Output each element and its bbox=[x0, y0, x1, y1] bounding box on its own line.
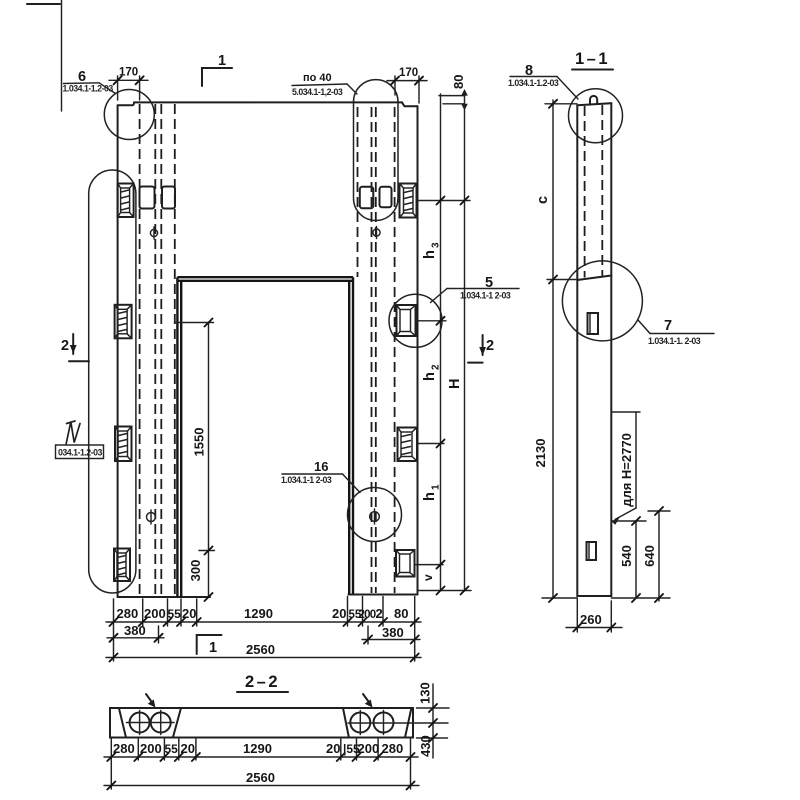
svg-text:200: 200 bbox=[359, 609, 376, 621]
svg-text:2: 2 bbox=[486, 338, 494, 354]
svg-text:2: 2 bbox=[431, 364, 442, 370]
svg-text:для H=2770: для H=2770 bbox=[619, 433, 634, 507]
svg-text:20: 20 bbox=[332, 606, 346, 621]
transition line bbox=[577, 276, 611, 281]
svg-text:80: 80 bbox=[451, 75, 466, 89]
svg-text:h: h bbox=[422, 250, 438, 259]
top-left corner notch bbox=[118, 102, 134, 105]
door opening right edge (double) bbox=[352, 277, 354, 594]
svg-text:2–2: 2–2 bbox=[245, 673, 280, 691]
boxed label left bbox=[66, 422, 80, 445]
svg-text:280: 280 bbox=[117, 606, 139, 621]
door opening top edge (double) bbox=[177, 276, 353, 278]
dim row1 ticks bbox=[110, 618, 419, 626]
dashed axis pair right bbox=[371, 107, 373, 593]
load arrow right bbox=[363, 694, 370, 703]
dashed axis pair left bbox=[154, 104, 156, 596]
slot rect bottom bbox=[587, 542, 597, 560]
svg-text:80: 80 bbox=[394, 606, 408, 621]
svg-text:1: 1 bbox=[209, 640, 217, 656]
right keyway trapezoid bbox=[343, 708, 349, 738]
svg-text:55: 55 bbox=[165, 742, 179, 756]
hole circles right bbox=[350, 713, 370, 733]
stray frame line top-left bbox=[61, 0, 63, 111]
dim 170 left: extension lines bbox=[117, 76, 119, 100]
svg-text:170: 170 bbox=[399, 67, 418, 79]
svg-text:по 40: по 40 bbox=[303, 72, 332, 84]
embedded plate P1L bbox=[118, 184, 134, 218]
dim 170 right: extension lines bbox=[394, 76, 396, 95]
svg-text:1: 1 bbox=[218, 53, 226, 69]
bottom extension line right bbox=[418, 590, 472, 592]
svg-text:280: 280 bbox=[113, 741, 135, 756]
top-right corner notch bbox=[402, 102, 418, 106]
svg-text:2130: 2130 bbox=[533, 439, 548, 468]
svg-text:1.034.1-1 2-03: 1.034.1-1 2-03 bbox=[460, 291, 511, 301]
svg-text:1: 1 bbox=[431, 484, 442, 490]
panel bottom edge right segment bbox=[349, 594, 418, 596]
svg-text:200: 200 bbox=[144, 606, 166, 621]
svg-text:20: 20 bbox=[182, 606, 196, 621]
extension verticals row1 bbox=[113, 599, 115, 661]
svg-text:200: 200 bbox=[140, 741, 162, 756]
section mark 1 bottom bbox=[197, 635, 222, 654]
svg-text:540: 540 bbox=[619, 545, 634, 567]
svg-text:H: H bbox=[447, 379, 463, 389]
dim 540 bbox=[611, 520, 646, 522]
extension P1R level bbox=[418, 200, 471, 202]
dashed hidden line left 170 bbox=[139, 104, 141, 596]
panel right edge bbox=[417, 106, 419, 594]
svg-text:034.1-1.2-03: 034.1-1.2-03 bbox=[58, 448, 102, 458]
load arrow left bbox=[146, 694, 153, 703]
svg-text:7: 7 bbox=[664, 318, 672, 334]
dim 2560 bbox=[104, 785, 419, 787]
dim 380 right bbox=[362, 639, 420, 641]
svg-text:300: 300 bbox=[188, 560, 203, 582]
svg-text:260: 260 bbox=[580, 612, 602, 627]
embedded plate P2L bbox=[115, 305, 132, 339]
right height dims bbox=[432, 684, 434, 758]
svg-text:1290: 1290 bbox=[244, 606, 273, 621]
svg-text:h: h bbox=[422, 492, 438, 501]
svg-text:1290: 1290 bbox=[243, 741, 272, 756]
svg-text:v: v bbox=[421, 574, 435, 581]
detail circle top-left corner bbox=[104, 90, 154, 140]
detail circle top (pos.8) bbox=[569, 89, 623, 143]
svg-text:200: 200 bbox=[358, 741, 380, 756]
embedded plate P3L bbox=[115, 427, 132, 462]
bolt lower-left bbox=[147, 513, 156, 522]
panel left edge bbox=[117, 105, 119, 597]
svg-text:170: 170 bbox=[119, 67, 138, 79]
hole circles left bbox=[130, 713, 150, 733]
hidden dashed lines bbox=[584, 106, 586, 278]
svg-text:380: 380 bbox=[382, 625, 404, 640]
svg-text:2560: 2560 bbox=[246, 642, 275, 657]
slot rect mid (pos.7) bbox=[588, 313, 599, 334]
dim line 1550/300 inside opening bbox=[208, 323, 210, 598]
svg-text:280: 280 bbox=[382, 741, 404, 756]
svg-text:1.034.1-1.2-03: 1.034.1-1.2-03 bbox=[508, 78, 559, 88]
lifting loop bbox=[590, 96, 597, 104]
dim 170 left: line and ticks bbox=[109, 79, 148, 81]
right dim chain line B (H) bbox=[464, 94, 466, 591]
svg-text:c: c bbox=[535, 196, 551, 204]
detail circle bolt (pos.16) bbox=[348, 488, 402, 542]
svg-text:55: 55 bbox=[168, 607, 182, 621]
dim 640 bbox=[648, 510, 670, 512]
svg-text:3: 3 bbox=[431, 242, 442, 248]
dim line c / 2130 bbox=[552, 100, 554, 598]
hook square SQ1L bbox=[140, 187, 155, 209]
detail capsule left column bbox=[89, 170, 136, 593]
svg-text:1–1: 1–1 bbox=[575, 50, 610, 68]
frame remnant top-left bbox=[27, 3, 60, 5]
detail circle mid (pos.7) bbox=[562, 261, 642, 341]
svg-text:2: 2 bbox=[376, 606, 383, 621]
svg-text:2560: 2560 bbox=[246, 770, 275, 785]
svg-text:130: 130 bbox=[418, 682, 433, 704]
bolt upper-right bbox=[373, 229, 380, 236]
svg-text:5.034.1-1,2-03: 5.034.1-1,2-03 bbox=[292, 87, 343, 97]
svg-text:430: 430 bbox=[418, 735, 433, 757]
dim 2560 line bbox=[106, 657, 421, 659]
dim 80 top right: two level lines bbox=[439, 95, 465, 97]
svg-text:2: 2 bbox=[61, 338, 69, 354]
hook square SQ2R bbox=[380, 187, 392, 208]
svg-text:380: 380 bbox=[124, 623, 146, 638]
dim row1 line bbox=[104, 756, 418, 758]
svg-text:16: 16 bbox=[314, 459, 328, 474]
column outline bbox=[577, 103, 611, 596]
svg-text:h: h bbox=[422, 372, 438, 381]
svg-text:1.034.1-1.2-03: 1.034.1-1.2-03 bbox=[63, 84, 114, 94]
embedded plate P3R bbox=[398, 428, 418, 462]
embedded plate P2R bbox=[397, 305, 416, 336]
hook square SQ2L bbox=[162, 187, 175, 209]
extension P3R level bbox=[418, 443, 445, 445]
dim 380 left bbox=[107, 637, 164, 639]
bolt upper-left bbox=[150, 229, 157, 236]
svg-text:20: 20 bbox=[181, 741, 195, 756]
dim 80 arrows bbox=[461, 89, 468, 96]
embedded plate P4L bbox=[114, 549, 130, 582]
extension P4R level bbox=[416, 564, 443, 566]
hook square SQ1R bbox=[360, 187, 374, 209]
panel top edge bbox=[134, 101, 402, 103]
door opening left edge (double) bbox=[176, 277, 178, 597]
embedded plate P1R bbox=[400, 184, 417, 218]
bar outline bbox=[110, 708, 413, 738]
dashed line left near door bbox=[174, 104, 176, 596]
dashed hidden line right 170 bbox=[394, 107, 396, 593]
detail circle plate P2R (pos.5) bbox=[389, 294, 442, 347]
dim extensions row1 bbox=[110, 739, 112, 789]
dim 260 bbox=[576, 598, 578, 632]
bolt lower-right (pos.16) bbox=[370, 512, 380, 522]
panel bottom edge left segment bbox=[118, 596, 210, 598]
svg-text:640: 640 bbox=[642, 545, 657, 567]
dim row1 line bbox=[106, 621, 421, 623]
section mark 1 top bbox=[202, 68, 232, 86]
svg-text:1.034.1-1. 2-03: 1.034.1-1. 2-03 bbox=[648, 336, 701, 346]
right dim chain line A (h1,h2,h3) bbox=[440, 94, 442, 591]
svg-text:1.034.1-1 2-03: 1.034.1-1 2-03 bbox=[281, 475, 332, 485]
note для H=2770 bbox=[611, 411, 640, 413]
embedded plate P4R bbox=[396, 550, 415, 577]
detail capsule right column bbox=[354, 80, 399, 221]
left keyway trapezoid bbox=[119, 708, 126, 738]
dim 170 right: line and ticks bbox=[387, 80, 427, 82]
extension P2R level bbox=[416, 320, 446, 322]
svg-text:1550: 1550 bbox=[192, 428, 207, 457]
dashed line right near door bbox=[357, 107, 359, 277]
svg-text:20: 20 bbox=[326, 741, 340, 756]
